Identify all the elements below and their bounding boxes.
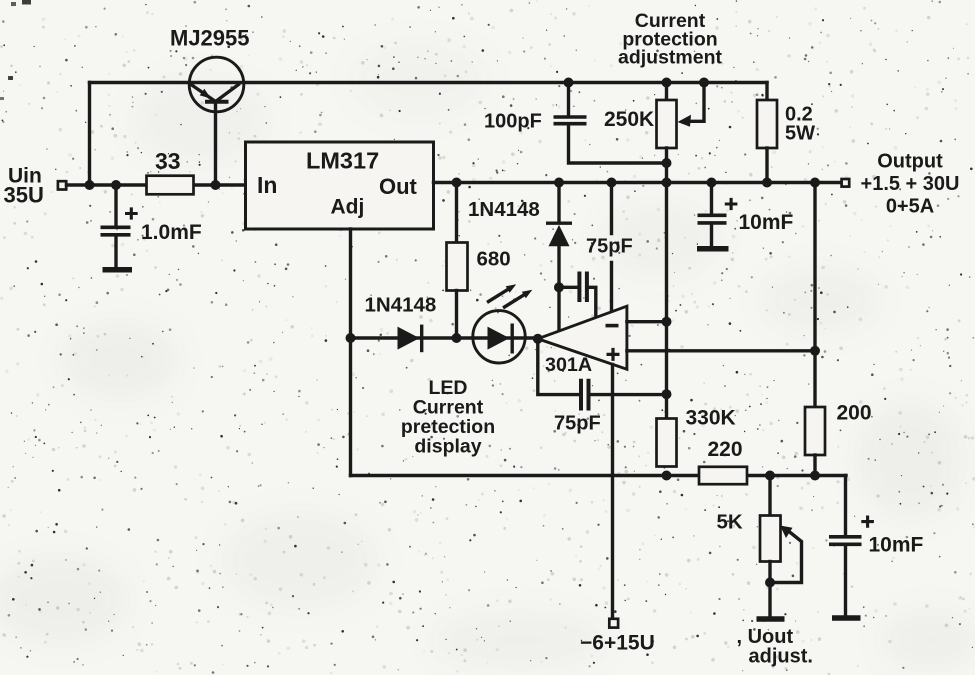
wire inverting input to 250K/330K column: [627, 320, 667, 323]
svg-text:250K: 250K: [604, 108, 654, 131]
capacitor C4 75pF compensation (upper): [559, 286, 578, 289]
node top rail: 250K top: [662, 78, 672, 88]
resistor R2 0.2 5W current sense: [765, 83, 768, 101]
svg-text:200: 200: [837, 402, 872, 425]
svg-text:5W: 5W: [785, 123, 815, 145]
node 5K wiper junction: [765, 578, 775, 588]
node 330K bottom on bus: [662, 471, 672, 481]
capacitor C5 75pF feedback (lower): [538, 339, 579, 395]
node out bus: 250K branch: [662, 178, 672, 188]
svg-text:0+5A: 0+5A: [886, 196, 934, 218]
svg-text:adjust.: adjust.: [749, 646, 813, 668]
potentiometer P1 250K: body, wiper arrow, wiper wire to top rail: [665, 83, 668, 101]
wire op-amp V- from bottom edge down to -6+15U terminal: [611, 365, 614, 619]
node 5K branch on bus: [765, 471, 775, 481]
wire Adj column from LM317 Adj pin down to bottom bus: [349, 229, 352, 476]
node out bus: 1N4148 branch: [554, 178, 564, 188]
svg-text:301A: 301A: [545, 354, 592, 376]
resistor R4 330K: [657, 419, 677, 467]
resistor R3 680: [455, 183, 458, 243]
pin mark minus (inverting input): [606, 324, 619, 328]
wire base drop from transistor to input bus: [214, 102, 217, 185]
node out bus: op-amp V+ branch: [607, 178, 617, 188]
svg-text:10mF: 10mF: [869, 534, 924, 557]
node diode/75pF junction: [554, 282, 564, 292]
svg-text:display: display: [414, 436, 481, 458]
node out bus: 10mF branch: [707, 178, 717, 188]
terminal Output (open square): [842, 179, 850, 187]
capacitor C6 10mF (output divider) electrolytic: [844, 476, 847, 536]
wire top-left riser from input node up to transistor emitter rail: [88, 83, 91, 186]
capacitor C3 10mF output electrolytic: [710, 183, 713, 214]
wire LED row from Adj column to op-amp apex: [351, 336, 538, 339]
ground (1.0mF): [103, 267, 133, 273]
terminal Uin (open square): [58, 181, 66, 189]
svg-text:33: 33: [155, 148, 181, 174]
svg-text:35U: 35U: [4, 183, 44, 208]
capacitor C1 1.0mF electrolytic: wire, plates, polarity, ground: [114, 185, 117, 226]
svg-text:330K: 330K: [686, 407, 736, 430]
node input junction (1.0mF branch): [111, 180, 121, 190]
LED emission arrow 1: [489, 289, 510, 302]
op-amp U2 301A (triangle pointing left, output at apex): [538, 306, 627, 369]
wire bottom bus from Adj corner to 10mF corner: [351, 474, 847, 477]
wire top rail (emitter-collector rail) from riser through transistor to 0.2 resistor: [90, 81, 768, 84]
node non-inverting input junction on 200 column: [810, 346, 820, 356]
potentiometer P2 5K (Uout adjust), body and wiper tied to bottom: [768, 476, 771, 516]
svg-text:In: In: [257, 172, 277, 198]
svg-text:10mF: 10mF: [739, 211, 794, 234]
node input junction (base drop): [211, 180, 221, 190]
wire input bus from Uin terminal to LM317 In pin: [67, 183, 246, 186]
svg-text:MJ2955: MJ2955: [170, 26, 250, 51]
ground (10mF top): [697, 246, 729, 252]
node inverting input junction: [662, 317, 672, 327]
svg-text:5K: 5K: [717, 511, 743, 534]
polarity + (10mF bottom): [861, 516, 874, 528]
polarity + (1.0mF): [125, 207, 138, 219]
resistor 33: [147, 176, 194, 195]
LED emission arrow 2: [505, 294, 526, 307]
svg-text:+1.5 + 30U: +1.5 + 30U: [861, 173, 960, 195]
wire 250K bottom column down to 330K (through out bus): [665, 148, 668, 419]
wire output bus from LM317 Out to output terminal: [434, 181, 842, 184]
svg-text:75pF: 75pF: [586, 236, 633, 258]
svg-text:Out: Out: [379, 174, 418, 199]
svg-text:LM317: LM317: [306, 148, 379, 174]
diode D2 1N4148 (vertical, cathode up): [557, 183, 560, 223]
wire non-inverting input to 200 column: [627, 349, 815, 352]
svg-text:1N4148: 1N4148: [468, 198, 540, 221]
ground (5K): [757, 616, 785, 622]
node Adj/LED-row junction: [346, 333, 356, 343]
svg-text:1N4148: 1N4148: [365, 294, 437, 317]
wire op-amp V+ from out bus down to op-amp top edge (split by label): [610, 183, 613, 312]
node op-amp output / apex junction: [533, 334, 543, 344]
svg-text:1.0mF: 1.0mF: [141, 221, 202, 244]
op-amp regulator U1 LM317 box: [246, 142, 434, 229]
svg-text:adjustment: adjustment: [618, 47, 723, 69]
pin mark plus (non-inverting input): [607, 348, 620, 361]
svg-text:−6+15U: −6+15U: [580, 632, 655, 655]
resistor R6 200: [813, 183, 816, 408]
node out bus: 680 branch: [452, 178, 462, 188]
LED D3 indicator: circle, diode, cathode bar: [473, 311, 525, 363]
node out bus: 0.2 sense branch: [762, 178, 772, 188]
svg-text:Adj: Adj: [331, 196, 365, 219]
svg-text:220: 220: [708, 438, 743, 461]
node lower 75pF junction on 250K/330K column: [662, 389, 672, 399]
node out bus: 200 branch: [810, 178, 820, 188]
node 680/LED-row junction: [452, 333, 462, 343]
node top rail: 100pF branch: [564, 78, 574, 88]
node 100pF/250K junction: [662, 158, 672, 168]
ground (10mF bottom): [832, 615, 861, 621]
node input junction (riser): [85, 180, 95, 190]
transistor Q1 MJ2955 (PNP pass transistor): [189, 57, 244, 112]
terminal -6+15U (open square): [609, 619, 618, 628]
polarity + (10mF top): [725, 198, 738, 210]
svg-text:75pF: 75pF: [554, 413, 601, 435]
resistor R5 220 (in series in bottom bus): [699, 467, 747, 484]
svg-text:Output: Output: [877, 151, 943, 173]
svg-text:680: 680: [477, 248, 511, 271]
node 200 bottom on bus: [810, 471, 820, 481]
diode D1 1N4148 (horizontal, cathode right): [398, 327, 420, 350]
svg-text:100pF: 100pF: [484, 111, 542, 133]
node top rail: 250K wiper: [699, 78, 709, 88]
capacitor C2 100pF: top wire, plates, bottom L-wire to 250K bottom: [567, 83, 570, 116]
